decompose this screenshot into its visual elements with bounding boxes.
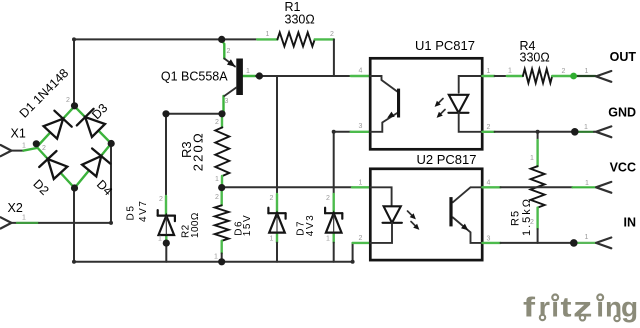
svg-text:1: 1 [585, 180, 589, 187]
svg-text:2: 2 [562, 68, 566, 75]
svg-text:VCC: VCC [610, 161, 636, 175]
svg-text:1: 1 [585, 68, 589, 75]
svg-text:1: 1 [246, 68, 250, 75]
svg-text:1: 1 [266, 31, 270, 38]
svg-text:X2: X2 [8, 201, 23, 215]
svg-text:2: 2 [359, 235, 363, 242]
svg-text:2: 2 [227, 48, 231, 55]
svg-text:2: 2 [326, 195, 330, 202]
svg-text:220Ω: 220Ω [190, 131, 205, 171]
svg-text:Q1 BC558A: Q1 BC558A [161, 70, 228, 84]
svg-text:1: 1 [158, 236, 162, 243]
svg-text:1: 1 [326, 236, 330, 243]
svg-text:1: 1 [270, 236, 274, 243]
svg-text:IN: IN [624, 216, 637, 230]
svg-text:1: 1 [22, 143, 26, 150]
svg-text:3: 3 [487, 236, 491, 243]
svg-text:100Ω: 100Ω [190, 212, 201, 238]
svg-text:1: 1 [584, 124, 588, 131]
svg-text:2: 2 [330, 31, 334, 38]
svg-text:2: 2 [215, 194, 219, 201]
svg-text:1: 1 [487, 68, 491, 75]
svg-text:2: 2 [159, 196, 163, 203]
svg-text:3: 3 [359, 123, 363, 130]
svg-text:330Ω: 330Ω [285, 13, 315, 27]
svg-text:OUT: OUT [610, 50, 637, 64]
svg-text:3: 3 [225, 98, 229, 105]
svg-text:1: 1 [214, 254, 218, 261]
svg-text:U1 PC817: U1 PC817 [415, 38, 475, 53]
svg-text:t: t [561, 292, 572, 323]
svg-text:R5: R5 [510, 210, 522, 226]
svg-text:15V: 15V [242, 214, 253, 237]
svg-text:4: 4 [487, 180, 491, 187]
svg-text:1: 1 [508, 68, 512, 75]
svg-text:1: 1 [359, 180, 363, 187]
svg-text:g: g [621, 292, 638, 323]
svg-text:330Ω: 330Ω [520, 51, 550, 65]
svg-text:1.5kΩ: 1.5kΩ [521, 197, 533, 236]
svg-text:2: 2 [487, 124, 491, 131]
svg-text:U2 PC817: U2 PC817 [417, 152, 477, 167]
svg-text:2: 2 [530, 219, 534, 226]
svg-text:4: 4 [359, 68, 363, 75]
svg-text:4V3: 4V3 [305, 214, 316, 237]
svg-text:1: 1 [215, 176, 219, 183]
svg-text:1: 1 [530, 155, 534, 162]
svg-text:1: 1 [585, 234, 589, 241]
svg-text:1: 1 [22, 215, 26, 222]
svg-text:2: 2 [42, 145, 46, 152]
svg-text:2: 2 [215, 119, 219, 126]
svg-text:2: 2 [66, 97, 70, 104]
svg-text:2: 2 [270, 195, 274, 202]
svg-text:GND: GND [608, 106, 636, 120]
svg-text:f: f [523, 292, 536, 323]
svg-text:D5: D5 [126, 205, 137, 221]
svg-text:X1: X1 [11, 127, 26, 141]
svg-text:4V7: 4V7 [138, 199, 149, 222]
